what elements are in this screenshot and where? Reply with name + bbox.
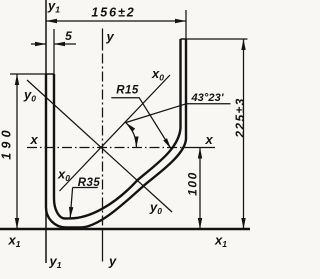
svg-text:225±3: 225±3 — [233, 97, 247, 138]
svg-text:156±2: 156±2 — [91, 6, 135, 20]
svg-text:R15: R15 — [116, 85, 139, 97]
svg-text:y: y — [106, 29, 115, 44]
svg-text:190: 190 — [0, 126, 14, 159]
svg-text:100: 100 — [186, 171, 200, 196]
svg-text:y: y — [108, 254, 117, 269]
svg-text:x: x — [205, 132, 214, 147]
svg-text:x: x — [30, 132, 39, 147]
svg-text:R35: R35 — [78, 177, 101, 189]
svg-text:43°23': 43°23' — [190, 92, 223, 104]
svg-text:5: 5 — [65, 29, 73, 43]
